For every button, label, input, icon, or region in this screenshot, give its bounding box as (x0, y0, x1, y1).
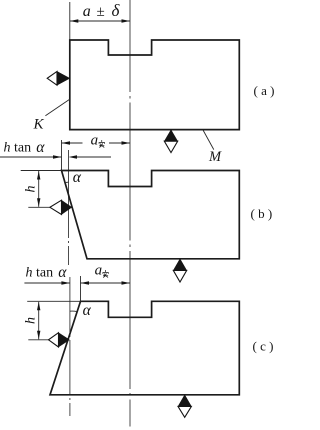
svg-text:K: K (33, 117, 45, 133)
svg-text:M: M (208, 149, 222, 165)
svg-text:a: a (95, 263, 103, 279)
svg-text:α: α (73, 169, 82, 186)
svg-text:( c ): ( c ) (253, 339, 274, 354)
arrowhead left of a±δ (70, 19, 79, 22)
svg-text:h: h (24, 317, 39, 324)
svg-text:α: α (36, 139, 45, 156)
block b outline (trapezoid, slanted left edge) (62, 171, 240, 259)
arrowhead left of a_shi c (81, 281, 90, 284)
leader line for K (45, 99, 69, 116)
h dimension line b (38, 171, 40, 207)
bottom locator diamond under block b (open bottom half) (173, 270, 186, 282)
opposing arrow right of contact line b with tail (69, 155, 78, 158)
h dimension line c (38, 302, 40, 340)
side locator diamond on slant of block b (open left half) (50, 200, 62, 214)
top reference line b (21, 170, 62, 172)
block c outline (trapezoid, slanted left edge other way) (50, 301, 239, 395)
angle alpha arc c (70, 310, 77, 313)
centerline (vertical dash-dot through all three blocks) (129, 0, 131, 427)
arrowhead right of a_shi c (122, 281, 131, 284)
dimension line a±δ (70, 20, 130, 22)
block a outline with top notch (70, 40, 240, 130)
svg-text:h: h (26, 266, 33, 281)
contact dash-dot line c (69, 277, 71, 416)
svg-text:α: α (58, 264, 67, 281)
side locator diamond on slant of block b (filled right half) (62, 200, 72, 214)
side locator diamond on left edge of block a (filled right half) (57, 71, 70, 85)
dimension line a_shi b (62, 142, 83, 144)
arrowhead right of a±δ (122, 19, 131, 22)
h tan alpha leader line c with arrow (24, 282, 70, 284)
svg-text:( a ): ( a ) (254, 83, 275, 98)
svg-text:α: α (83, 302, 92, 319)
svg-text:( b ): ( b ) (251, 206, 273, 221)
arrowhead right of a_shi b (122, 141, 131, 144)
angle alpha arc b (65, 181, 68, 184)
contact dash-dot line b (68, 150, 70, 265)
svg-text:±: ± (97, 4, 105, 20)
top reference line c (27, 300, 80, 302)
bottom locator diamond under block b (filled top half) (173, 259, 186, 271)
svg-text:tan: tan (36, 266, 53, 281)
side locator diamond on left edge of block a (open left half) (47, 71, 57, 85)
bottom locator diamond under block c (open bottom half) (178, 406, 191, 417)
leader line for M (203, 130, 214, 150)
side locator diamond on slant of block c (open left half) (49, 333, 59, 347)
extension line of slant top corner b (61, 140, 63, 171)
dimension line a_shi c (81, 282, 131, 284)
bottom locator diamond under block c (filled top half) (178, 395, 191, 407)
bottom reference line c (contact level) (28, 339, 48, 341)
bottom reference line b (contact level) (28, 206, 50, 208)
svg-text:δ: δ (112, 1, 121, 20)
svg-text:tan: tan (14, 141, 31, 156)
svg-text:h: h (4, 141, 11, 156)
extension line of slant top corner c (80, 276, 82, 301)
arrowhead left of a_shi b (62, 141, 71, 144)
side locator diamond on slant of block c (filled right half) (59, 333, 70, 347)
extension line above left edge of block a (69, 2, 71, 40)
svg-text:a: a (83, 3, 91, 20)
h tan alpha leader line b with arrow (0, 156, 62, 158)
bottom locator diamond under block a (open bottom half) (164, 141, 177, 152)
bottom locator diamond under block a (filled top half) (164, 130, 177, 141)
svg-text:a: a (91, 133, 99, 149)
svg-text:h: h (24, 186, 39, 193)
